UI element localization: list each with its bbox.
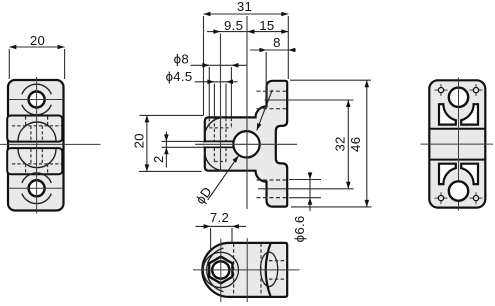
svg-text:20: 20 — [30, 33, 45, 48]
svg-text:ϕD: ϕD — [193, 184, 215, 207]
svg-text:9.5: 9.5 — [224, 18, 243, 33]
svg-text:15: 15 — [259, 18, 274, 33]
svg-text:20: 20 — [132, 133, 147, 148]
svg-text:ϕ8: ϕ8 — [174, 52, 189, 67]
svg-text:32: 32 — [333, 136, 348, 151]
svg-text:8: 8 — [273, 35, 281, 50]
svg-text:31: 31 — [237, 0, 252, 14]
svg-text:46: 46 — [348, 137, 363, 152]
svg-text:ϕ6.6: ϕ6.6 — [292, 215, 307, 242]
svg-text:ϕ4.5: ϕ4.5 — [166, 69, 193, 84]
svg-text:2: 2 — [151, 155, 166, 163]
svg-text:7.2: 7.2 — [210, 210, 229, 225]
